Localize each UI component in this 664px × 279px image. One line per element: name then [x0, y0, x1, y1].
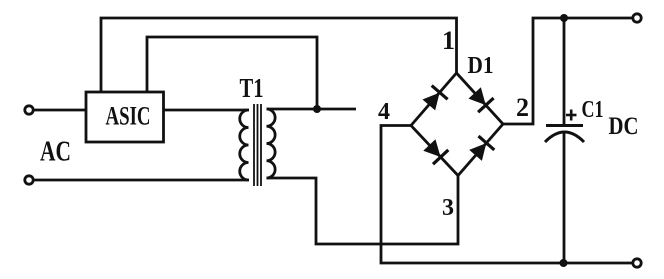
terminal AC top	[25, 106, 33, 114]
terminal DC bottom	[633, 259, 641, 267]
label +	[566, 110, 577, 121]
svg-text:2: 2	[516, 93, 529, 122]
junction	[560, 259, 568, 267]
wire	[164, 109, 250, 112]
svg-text:AC: AC	[40, 136, 71, 168]
svg-text:C1: C1	[582, 97, 604, 123]
terminal DC top	[633, 14, 641, 22]
diode D1a (4 to 1)	[423, 86, 447, 110]
wire	[33, 179, 249, 182]
wire	[503, 18, 633, 124]
svg-text:ASIC: ASIC	[106, 102, 151, 131]
wire	[147, 37, 317, 109]
junction	[313, 105, 321, 113]
diode D1b (1 to 2)	[469, 88, 493, 112]
junction	[560, 14, 568, 22]
wire	[267, 108, 357, 111]
svg-text:T1: T1	[240, 73, 264, 103]
wire	[381, 126, 633, 264]
svg-text:3: 3	[442, 195, 454, 221]
capacitor C1	[545, 18, 584, 263]
diode D1c (4 to 3)	[424, 140, 448, 164]
svg-text:1: 1	[442, 26, 455, 55]
terminal AC bottom	[25, 176, 33, 184]
wire	[33, 109, 86, 112]
wire	[267, 176, 459, 245]
transformer T1	[240, 73, 276, 186]
wire	[101, 18, 457, 92]
IC U1 ASIC	[86, 92, 164, 142]
svg-text:D1: D1	[468, 53, 494, 79]
diode bridge D1 frame	[411, 73, 503, 176]
svg-text:4: 4	[378, 99, 390, 125]
svg-text:DC: DC	[609, 113, 639, 140]
diode D1d (3 to 2)	[470, 136, 494, 160]
